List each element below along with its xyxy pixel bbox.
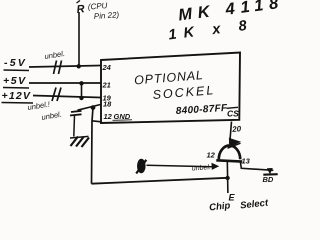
wire +5V to pin 21 <box>29 82 101 84</box>
wire pin18 junction down to GND rail <box>92 108 94 184</box>
svg-text:12: 12 <box>207 151 216 160</box>
paper background <box>0 0 281 216</box>
svg-text:13: 13 <box>242 157 251 166</box>
node R (CPU Pin 22) label <box>76 1 120 21</box>
svg-text:Pin 22): Pin 22) <box>94 10 120 21</box>
wire +12V to pin 19 <box>33 96 101 98</box>
pin CS label with overline <box>227 107 240 118</box>
label +5V <box>3 75 29 88</box>
socket box U1 <box>101 53 240 124</box>
svg-text:20: 20 <box>231 124 242 134</box>
junction dot on pin18 wire <box>91 105 96 110</box>
svg-text:R: R <box>76 3 85 16</box>
svg-text:Chip: Chip <box>209 200 231 213</box>
junction dot on pin24 line <box>77 64 81 68</box>
wire pin 20 (CS) down to transistor <box>230 122 232 145</box>
svg-text:CS: CS <box>227 109 239 119</box>
svg-text:-5V: -5V <box>4 57 27 69</box>
svg-text:21: 21 <box>102 81 111 90</box>
transistor Q1 dome <box>219 146 240 160</box>
svg-text:+12V: +12V <box>2 90 32 102</box>
label Chip Select <box>209 198 270 214</box>
ground symbol <box>70 136 89 147</box>
bottom ground rail wire <box>92 178 228 184</box>
wire -5V to pin 24 <box>29 66 101 68</box>
capacitor C (decoupling) <box>70 110 82 137</box>
wire from CPU pin 22 down to pin 24 line <box>78 12 80 66</box>
junction dot on ground rail <box>225 176 229 180</box>
collector arrow flag <box>228 138 242 148</box>
label -5V <box>4 57 30 71</box>
junction dot on +5V line <box>79 81 83 85</box>
svg-text:unbel.: unbel. <box>192 164 212 172</box>
break marks on +12V wire <box>52 88 61 102</box>
svg-text:(CPU: (CPU <box>88 1 108 11</box>
break marks on -5V wire <box>54 61 62 75</box>
pin 12 GND stub <box>92 121 101 122</box>
jumper wire +5V to pin 19 line <box>81 83 83 98</box>
bus terminal symbol <box>263 168 277 175</box>
wire blob to transistor left <box>147 165 213 167</box>
svg-text:BD: BD <box>263 175 274 184</box>
transistor baseline <box>216 160 242 161</box>
svg-text:+5V: +5V <box>3 75 27 87</box>
svg-text:12: 12 <box>104 112 113 121</box>
svg-text:24: 24 <box>102 63 112 72</box>
pin 18 wire <box>78 105 101 111</box>
svg-text:18: 18 <box>103 100 112 109</box>
wire transistor right lead to bus <box>240 162 273 171</box>
label +12V <box>2 90 34 103</box>
pin 12 GND label <box>104 112 133 121</box>
wire transistor bottom lead down <box>226 162 229 194</box>
connector blob node <box>136 159 146 174</box>
emitter arrowhead <box>212 163 220 170</box>
junction dot on pin19 line <box>79 96 83 100</box>
